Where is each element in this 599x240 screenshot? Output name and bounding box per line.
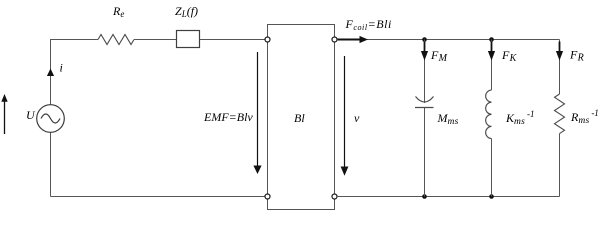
svg-text:Re: Re [112,4,124,19]
wire: stiffness branch vertical [491,40,493,197]
arrow v (down, right of Bl box) [341,56,349,176]
arrow FK (down on stiffness branch) [488,42,495,61]
label ZL(f) [175,4,198,19]
label i [60,61,63,75]
label U [26,108,36,122]
wire: top right rail from Bl box to right branch [337,39,560,41]
wire: bottom right rail from Bl box to right branch [337,196,560,198]
gyrator box Bl [268,25,335,210]
wire: resistor to ZL box [134,39,177,41]
label FK [501,48,518,64]
svg-text:U: U [26,108,36,122]
label Kms^-1 [505,109,534,127]
svg-text:FM: FM [430,48,448,64]
node: junction dot top at mass branch [422,37,427,42]
resistor Re (zigzag) [98,35,134,45]
node: junction dot top at stiffness branch [489,37,494,42]
wire: bottom from source to Bl box bottom-left terminal [51,196,266,198]
terminal: Bl box bottom-right [332,194,337,199]
wire: top-left horizontal from source branch to resistor [50,39,98,41]
svg-text:Fcoil=Bli: Fcoil=Bli [345,17,392,32]
svg-text:EMF=Blv: EMF=Blv [203,110,253,124]
arrow FM (down on mass branch) [421,42,428,61]
label EMF=Blv [203,110,253,124]
arrow FR (down on resistance branch) [556,42,563,61]
label Bl [294,111,305,125]
arrow EMF=Blv (down, left of Bl box) [253,52,261,174]
impedance ZL(f) box [177,31,200,48]
label Re [112,4,124,19]
source U (sine source circle) [37,105,65,133]
svg-text:v: v [354,111,360,125]
wire: mass branch vertical [424,40,426,197]
label FM [430,48,448,64]
svg-text:i: i [60,61,63,75]
wire: ZL box to left terminal of Bl box [200,39,266,41]
label Rms^-1 [570,108,599,126]
svg-text:Kms-1: Kms-1 [505,109,534,127]
svg-text:Rms-1: Rms-1 [570,108,599,126]
svg-text:ZL(f): ZL(f) [175,4,198,19]
arrow U (voltage direction, far left) [1,94,7,134]
terminal: Bl box bottom-left [265,194,270,199]
arrow Fcoil=Bli (right, on top rail) [338,36,369,43]
svg-text:Mms: Mms [437,111,459,127]
arrow i (current direction on left wire) [47,69,54,77]
node: junction dot bottom at stiffness branch [489,194,494,199]
wire: resistance branch vertical [559,40,561,197]
svg-text:FR: FR [569,48,584,64]
terminal: Bl box top-left [265,37,270,42]
inductor Kms^-1 (coil, 4 left bumps) [486,90,492,139]
label Fcoil=Bli [345,17,392,32]
capacitor Mms (curved top plate + straight plate) [415,97,434,108]
wire: left vertical (source branch) [50,40,52,197]
label FR [569,48,584,64]
label v [354,111,360,125]
resistor Rms^-1 (vertical zigzag) [555,94,565,134]
label Mms [437,111,459,127]
svg-text:Bl: Bl [294,111,305,125]
node: junction dot bottom at mass branch [422,194,427,199]
svg-text:FK: FK [501,48,518,64]
terminal: Bl box top-right [332,37,337,42]
